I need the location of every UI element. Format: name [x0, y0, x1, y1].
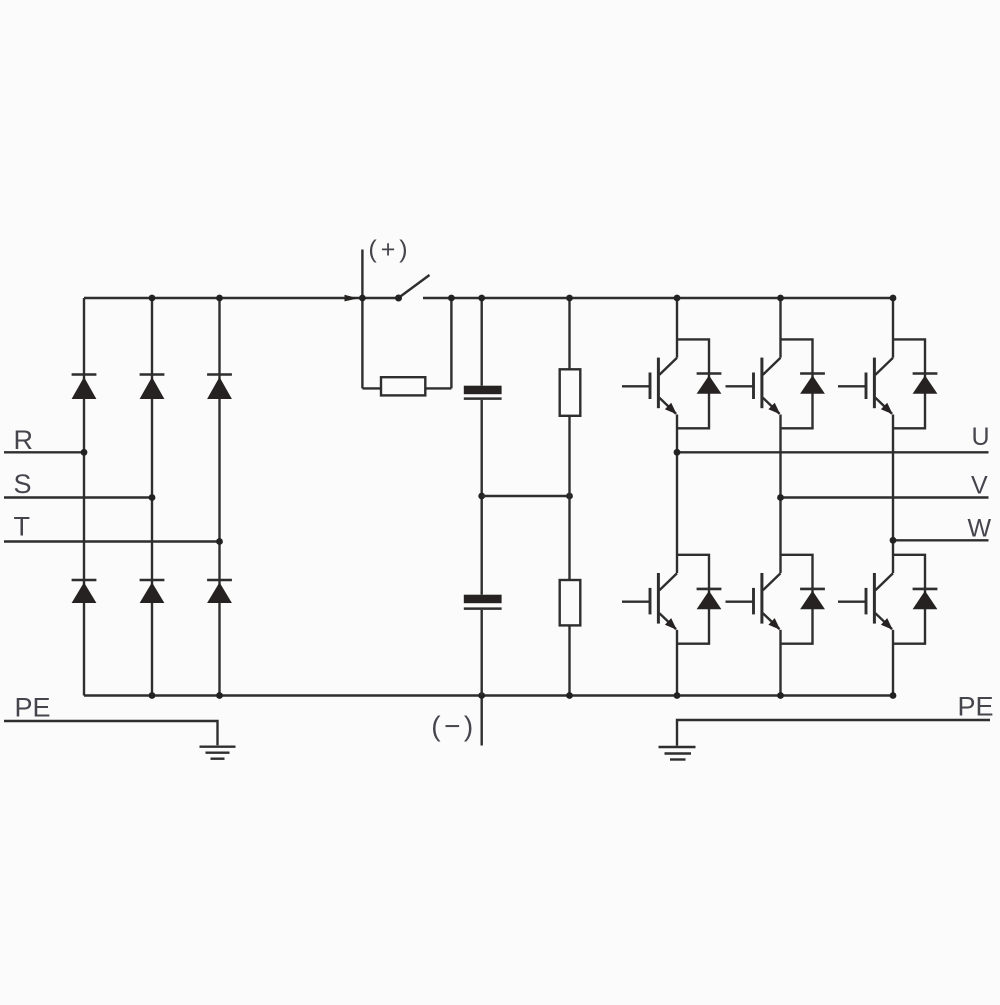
svg-text:W: W — [968, 515, 992, 543]
resistor R3 — [560, 580, 581, 625]
junction dot bleeder bottom — [566, 692, 573, 699]
diode D8 — [800, 374, 825, 394]
(+) terminal stub / precharge left leg — [361, 250, 363, 389]
wire: PE right — [677, 720, 990, 746]
diode D12 — [913, 589, 938, 609]
diode D2 — [140, 375, 165, 400]
IGBT Q3 — [838, 358, 893, 415]
svg-text:(+): (+) — [368, 236, 411, 264]
wire: rectifier leg 3 — [218, 298, 220, 696]
junction dot stub — [478, 692, 485, 699]
diode D1 — [72, 375, 97, 400]
wire: Q3 cell frame — [893, 339, 925, 428]
diode D7 — [697, 374, 722, 394]
svg-text:R: R — [14, 425, 34, 455]
current arrow on DC+ bus — [345, 295, 359, 302]
junction dot leg3 top bus — [216, 295, 223, 302]
junction dot cap mid — [478, 493, 485, 500]
wire: precharge right leg — [450, 298, 452, 388]
junction dot S — [149, 494, 156, 501]
wire: DC- bottom bus — [84, 694, 893, 696]
ground symbol right — [659, 747, 696, 760]
wire: Q5 cell frame — [781, 555, 813, 644]
wire: DC+ top bus right segment — [423, 297, 893, 299]
junction dot leg 1 top bus — [674, 295, 681, 302]
resistor R2 — [560, 369, 581, 416]
wire: R input — [4, 451, 84, 453]
junction dot V — [777, 494, 784, 501]
capacitor C2 — [464, 595, 502, 609]
IGBT Q5 — [726, 573, 781, 630]
wire: PE left — [4, 721, 218, 745]
junction dot U — [674, 449, 681, 456]
svg-text:U: U — [972, 423, 990, 451]
diode D9 — [913, 374, 938, 394]
svg-text:(−): (−) — [431, 711, 477, 742]
wire: U output — [677, 451, 989, 453]
junction dots bottom bus rectifier — [149, 692, 156, 699]
diode D11 — [800, 589, 825, 609]
switch S1 blade — [399, 275, 430, 298]
diode D5 — [140, 580, 165, 603]
IGBT Q2 — [726, 358, 781, 415]
wire: Q4 cell frame — [677, 555, 709, 644]
diode D3 — [207, 375, 232, 400]
wire: bleeder column middle lead — [568, 416, 570, 580]
wire: rectifier leg 1 — [83, 298, 85, 696]
wire: Q1 cell frame — [677, 339, 709, 428]
junction dot leg 3 top bus — [890, 295, 897, 302]
wire: inverter leg 2 column — [779, 298, 781, 696]
wire: DC+ top bus left segment — [84, 297, 399, 299]
junction dot leg2 top bus — [149, 295, 156, 302]
junction dot leg 3 bottom bus — [890, 692, 897, 699]
wire: T input — [4, 540, 220, 542]
wire: precharge resistor leads — [362, 387, 451, 389]
svg-text:T: T — [14, 512, 31, 542]
junction dot leg 2 top bus — [777, 295, 784, 302]
wire: inverter leg 3 column — [892, 298, 894, 696]
junction dot leg 2 bottom bus — [777, 692, 784, 699]
junction dot mid right — [566, 493, 573, 500]
wire: bleeder column top lead — [568, 298, 570, 369]
svg-text:PE: PE — [958, 692, 994, 722]
svg-text:PE: PE — [15, 693, 51, 723]
wire: capacitor column upper — [481, 298, 483, 386]
wire: negative bus stub — [481, 696, 483, 746]
svg-text:S: S — [14, 469, 32, 499]
wire: S input — [4, 496, 152, 498]
junction dot bleeder top — [566, 295, 573, 302]
IGBT Q4 — [622, 573, 677, 630]
switch S1 pivot junction — [395, 295, 402, 302]
wire: capacitor column middle — [481, 400, 483, 595]
IGBT Q6 — [838, 573, 893, 630]
wire: inverter leg 1 column — [676, 298, 678, 696]
diode D4 — [72, 580, 97, 603]
junction dot precharge right — [448, 295, 455, 302]
junction dot (+) on bus — [359, 295, 366, 302]
wire: V output — [781, 496, 989, 498]
wire: DC midpoint link — [482, 495, 570, 497]
IGBT Q1 — [622, 358, 677, 415]
junction dot R — [81, 449, 88, 456]
wire: capacitor column lower — [481, 610, 483, 696]
wire: W output — [893, 539, 989, 541]
diode D6 — [207, 580, 232, 603]
junction dot W — [890, 537, 897, 544]
wire: Q2 cell frame — [781, 339, 813, 428]
diode D10 — [697, 589, 722, 609]
junction dot leg 1 bottom bus — [674, 692, 681, 699]
junction dot T — [216, 538, 223, 545]
svg-text:V: V — [971, 472, 988, 500]
wire: rectifier leg 2 — [151, 298, 153, 696]
wire: bleeder column bottom lead — [568, 625, 570, 695]
ground symbol left — [200, 747, 236, 759]
resistor R1 pre-charge — [381, 377, 425, 395]
wire: Q6 cell frame — [893, 555, 925, 644]
capacitor C1 — [464, 386, 502, 399]
junction dot cap top — [478, 295, 485, 302]
